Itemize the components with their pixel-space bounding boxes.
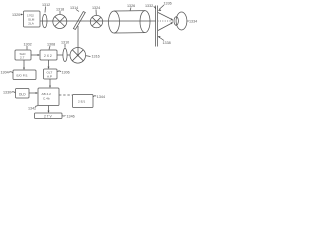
- wire B to C: [31, 54, 40, 56]
- mirror BS1: [73, 12, 85, 30]
- svg-text:1306: 1306: [62, 71, 70, 75]
- svg-text:DLD: DLD: [19, 92, 26, 96]
- svg-text:1332: 1332: [145, 4, 153, 8]
- svg-text:1346: 1346: [67, 114, 75, 118]
- wire axis dotted to eye: [158, 20, 174, 22]
- svg-text:1318: 1318: [56, 8, 64, 12]
- label 1318: [56, 8, 64, 15]
- wire G to F: [29, 92, 38, 94]
- coupler box C: [40, 50, 57, 60]
- label 1346: [62, 114, 75, 118]
- label 1344: [93, 95, 105, 99]
- label 1336: [158, 2, 172, 11]
- svg-text:2 E/1: 2 E/1: [78, 99, 86, 103]
- svg-text:2 X 2: 2 X 2: [44, 54, 52, 58]
- wire mirror down: [77, 26, 79, 55]
- label 1314: [70, 6, 79, 12]
- label 1338: [158, 36, 171, 45]
- svg-text:1308: 1308: [47, 43, 55, 47]
- modulator M1: [53, 15, 67, 29]
- box H: [73, 95, 94, 108]
- box F processor: [38, 88, 59, 106]
- label 1334: [187, 20, 197, 24]
- box I display: [35, 113, 63, 119]
- label 1306: [58, 71, 70, 75]
- lens L1: [42, 14, 47, 28]
- svg-text:1302: 1302: [24, 43, 32, 47]
- node label 1320: [12, 13, 23, 17]
- plate screen: [156, 6, 158, 47]
- label 1310: [61, 41, 69, 48]
- label 1316: [86, 55, 100, 59]
- wire C down to E: [48, 60, 50, 69]
- svg-text:1344: 1344: [97, 95, 105, 99]
- ray upper: [158, 13, 173, 21]
- svg-text:1312: 1312: [42, 3, 50, 7]
- svg-text:2LA: 2LA: [28, 21, 34, 25]
- box E: [44, 69, 58, 79]
- box D: [13, 70, 36, 80]
- label 1304: [1, 71, 14, 75]
- label 1324: [92, 6, 100, 15]
- cylinder relay: [109, 11, 151, 33]
- wire F to H dashed: [59, 94, 73, 96]
- svg-text:1304: 1304: [1, 71, 9, 75]
- svg-text:E/O P.S.: E/O P.S.: [17, 73, 29, 77]
- wire F down to I: [48, 106, 50, 114]
- label 1312: [42, 3, 50, 13]
- svg-text:1320: 1320: [12, 13, 20, 17]
- box source A: [24, 11, 41, 27]
- modulator M2: [90, 15, 102, 27]
- wire E down to F: [49, 79, 51, 88]
- svg-text:1314: 1314: [70, 6, 78, 10]
- svg-text:1330: 1330: [3, 91, 11, 95]
- svg-text:2.7: 2.7: [20, 56, 25, 60]
- eye: [174, 12, 187, 30]
- svg-text:C.4b: C.4b: [43, 96, 50, 100]
- label 1308: [47, 43, 55, 50]
- svg-text:1316: 1316: [92, 55, 100, 59]
- ray lower: [158, 22, 173, 30]
- svg-text:1336: 1336: [164, 2, 172, 6]
- svg-text:1310: 1310: [61, 41, 69, 45]
- svg-text:1338: 1338: [163, 41, 171, 45]
- label 1332: [145, 4, 156, 9]
- label 1330: [3, 91, 15, 95]
- svg-text:1324: 1324: [92, 6, 100, 10]
- svg-text:A.P: A.P: [47, 75, 52, 79]
- wire B down to D: [23, 60, 25, 70]
- svg-text:1326: 1326: [127, 4, 135, 8]
- box G DLD: [16, 89, 30, 99]
- wire C to lens: [57, 54, 63, 56]
- wire lens to M3: [67, 54, 70, 56]
- modulator M3: [70, 48, 86, 64]
- label 1326: [127, 4, 135, 11]
- label 1342: [28, 106, 38, 111]
- lens L2: [63, 48, 67, 61]
- label 1302: [24, 43, 32, 50]
- svg-text:1342: 1342: [28, 107, 36, 111]
- wire axis row1: [40, 20, 156, 22]
- svg-text:2 T V: 2 T V: [44, 114, 53, 118]
- svg-text:1334: 1334: [189, 20, 197, 24]
- box source B: [15, 50, 31, 60]
- svg-text:AB 4.2: AB 4.2: [42, 92, 52, 96]
